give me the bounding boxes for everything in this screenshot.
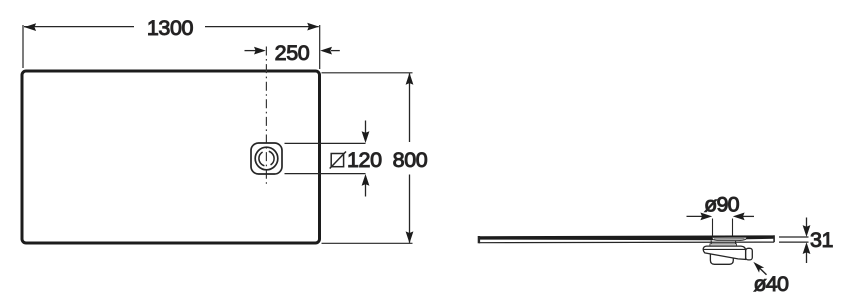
svg-text:1300: 1300 (147, 16, 194, 40)
ø90 left arrow (687, 215, 704, 217)
trap body joint line (703, 248, 745, 250)
31 extension line bottom (779, 241, 809, 243)
ø40 leader arrow (757, 266, 767, 275)
dimension 120 bottom arrow (365, 181, 367, 197)
dimension line 800 (409, 73, 411, 142)
31 dimension upper arrow (806, 218, 808, 231)
31 dimension lower arrow (806, 249, 808, 263)
svg-text:800: 800 (393, 148, 428, 172)
drain cover square (251, 143, 282, 174)
drain centerline (dash-dot) (265, 47, 267, 185)
dimension line 1300 (24, 26, 134, 28)
svg-text:ø40: ø40 (753, 272, 788, 296)
arrowhead 1300 left (24, 23, 36, 31)
drain pipe verticals (710, 240, 712, 244)
svg-text:31: 31 (810, 228, 833, 252)
extension line left (1300) (22, 25, 24, 68)
leader line drain bottom (285, 173, 366, 175)
svg-text:250: 250 (275, 41, 310, 65)
trap outlet (746, 248, 753, 260)
ø90 extension line left (712, 219, 714, 236)
dimension 250 left arrow (245, 50, 259, 52)
trap lower cup (710, 254, 733, 264)
tray outline (plan view rectangle) (22, 71, 320, 243)
arrowhead 800 top (406, 73, 414, 85)
ø90 extension line right (732, 219, 734, 236)
extension line right (1300/250) (319, 25, 321, 69)
arrowhead 1300 right (307, 23, 319, 31)
arrowhead 800 bottom (406, 231, 414, 243)
trap neck (710, 244, 737, 246)
square symbol (331, 154, 343, 167)
dimension 120 top arrow (365, 121, 367, 137)
leader line drain top (285, 142, 366, 144)
dimension 250 right arrow (331, 50, 340, 52)
trap body (703, 246, 745, 259)
tray left end cap (478, 236, 480, 243)
extension line 800 bottom (322, 242, 413, 244)
svg-text:120: 120 (347, 148, 382, 172)
drain inner circle (broken) (259, 151, 274, 166)
drain outer circle (255, 147, 278, 170)
extension line 800 top (322, 72, 413, 74)
tray right end cap (773, 235, 775, 242)
drain flange dish (712, 237, 748, 241)
tray section top band (479, 235, 775, 240)
31 extension line top (779, 236, 809, 238)
ø90 right arrow (742, 215, 754, 217)
tray bottom line (479, 241, 774, 244)
svg-text:ø90: ø90 (704, 192, 739, 216)
